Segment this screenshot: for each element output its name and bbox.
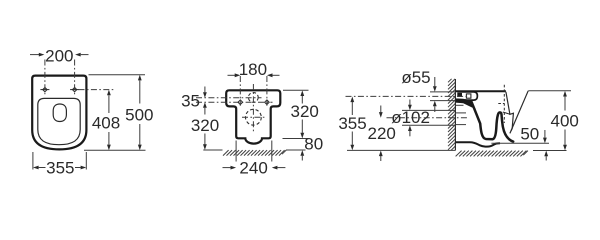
dim 320 right xyxy=(291,90,319,138)
hole centerline left vertical xyxy=(44,60,46,96)
spud housing xyxy=(462,92,477,100)
inlet pipe bottom ext xyxy=(430,100,455,102)
inlet axis dash-dot xyxy=(346,95,469,97)
svg-text:50: 50 xyxy=(520,125,539,144)
floor ext line left xyxy=(347,149,455,151)
dim o102 xyxy=(391,100,430,137)
bowl opening egg xyxy=(53,104,66,122)
dim 180 xyxy=(228,60,280,79)
inlet hole dashed circle xyxy=(248,93,258,103)
inlet axis horizontal xyxy=(196,97,262,99)
outlet socket bottom line xyxy=(456,124,466,126)
bowl bottom ext line xyxy=(491,142,549,144)
240 ext line left xyxy=(235,141,237,162)
hole ext line right xyxy=(266,76,268,106)
svg-text:180: 180 xyxy=(239,60,267,79)
outlet pipe top ext xyxy=(402,109,455,111)
svg-text:35: 35 xyxy=(181,91,200,110)
floor line left segment xyxy=(203,149,222,151)
dim 500 xyxy=(84,75,153,151)
dim 355 right view xyxy=(338,97,366,151)
fixing hole left diamond xyxy=(238,100,243,105)
wall hatching xyxy=(448,79,455,151)
inlet pipe top ext xyxy=(430,91,455,93)
svg-text:200: 200 xyxy=(45,47,73,66)
center axis vertical xyxy=(252,84,254,133)
dim 240 xyxy=(223,159,286,178)
hole axis horizontal to 408 dim xyxy=(79,89,116,91)
drain hole dashed circle xyxy=(246,109,262,125)
svg-text:ø55: ø55 xyxy=(401,68,430,87)
floor hatching right view xyxy=(456,151,528,157)
dim 408 xyxy=(92,90,120,151)
dim 220 xyxy=(368,106,396,162)
spud inner xyxy=(466,94,471,98)
fixing axis horizontal xyxy=(196,101,273,103)
floor ext line right xyxy=(533,150,567,152)
drain crosshair horizontal xyxy=(242,116,265,118)
hidden dash horizontal xyxy=(498,103,504,105)
svg-text:ø102: ø102 xyxy=(391,108,430,127)
dim 50 xyxy=(520,125,548,161)
bowl trap and front wall thick xyxy=(471,101,513,141)
hole ext line left xyxy=(239,76,241,106)
dim 200 xyxy=(30,47,89,66)
plan outline xyxy=(32,76,86,150)
rim channel black band xyxy=(456,98,476,109)
dim 400 xyxy=(551,91,579,150)
outlet pipe bottom ext xyxy=(402,124,455,126)
floor line right segment xyxy=(286,149,306,151)
top ext line to 400 xyxy=(528,90,571,92)
under-spud line xyxy=(455,104,463,106)
funnel left diagonal xyxy=(506,92,514,131)
svg-text:240: 240 xyxy=(239,159,267,178)
svg-text:355: 355 xyxy=(46,159,74,178)
dim 355 xyxy=(33,152,86,178)
floor hatching middle xyxy=(223,150,286,156)
svg-text:408: 408 xyxy=(92,114,120,133)
svg-text:80: 80 xyxy=(304,135,323,154)
outlet socket top line xyxy=(456,112,466,114)
top ext line right xyxy=(283,89,309,91)
bowl outer bottom xyxy=(456,142,501,146)
rim flag line xyxy=(503,112,510,114)
outlet axis dash-dot xyxy=(387,117,469,119)
hole centerline right vertical xyxy=(74,60,76,96)
fixing hole left xyxy=(40,87,49,91)
spud black block xyxy=(457,92,462,97)
seat outline xyxy=(38,98,80,144)
dim 320 left xyxy=(191,116,219,150)
wall face line xyxy=(454,79,456,150)
front outline xyxy=(226,90,280,143)
svg-text:400: 400 xyxy=(551,111,579,130)
240 ext line right xyxy=(271,141,273,162)
svg-text:355: 355 xyxy=(338,114,366,133)
funnel right diagonal xyxy=(510,91,528,134)
fixing hole right xyxy=(70,87,79,91)
fixing hole right diamond xyxy=(265,100,270,105)
svg-text:500: 500 xyxy=(125,105,153,124)
dim 35 xyxy=(181,87,207,115)
dim 80 xyxy=(300,135,323,161)
bottom ext line right xyxy=(283,138,309,140)
svg-text:320: 320 xyxy=(191,116,219,135)
seat hidden dashed xyxy=(503,85,505,123)
svg-text:220: 220 xyxy=(368,124,396,143)
dim o55 xyxy=(401,68,436,112)
rim top line xyxy=(455,90,506,92)
svg-text:320: 320 xyxy=(291,102,319,121)
